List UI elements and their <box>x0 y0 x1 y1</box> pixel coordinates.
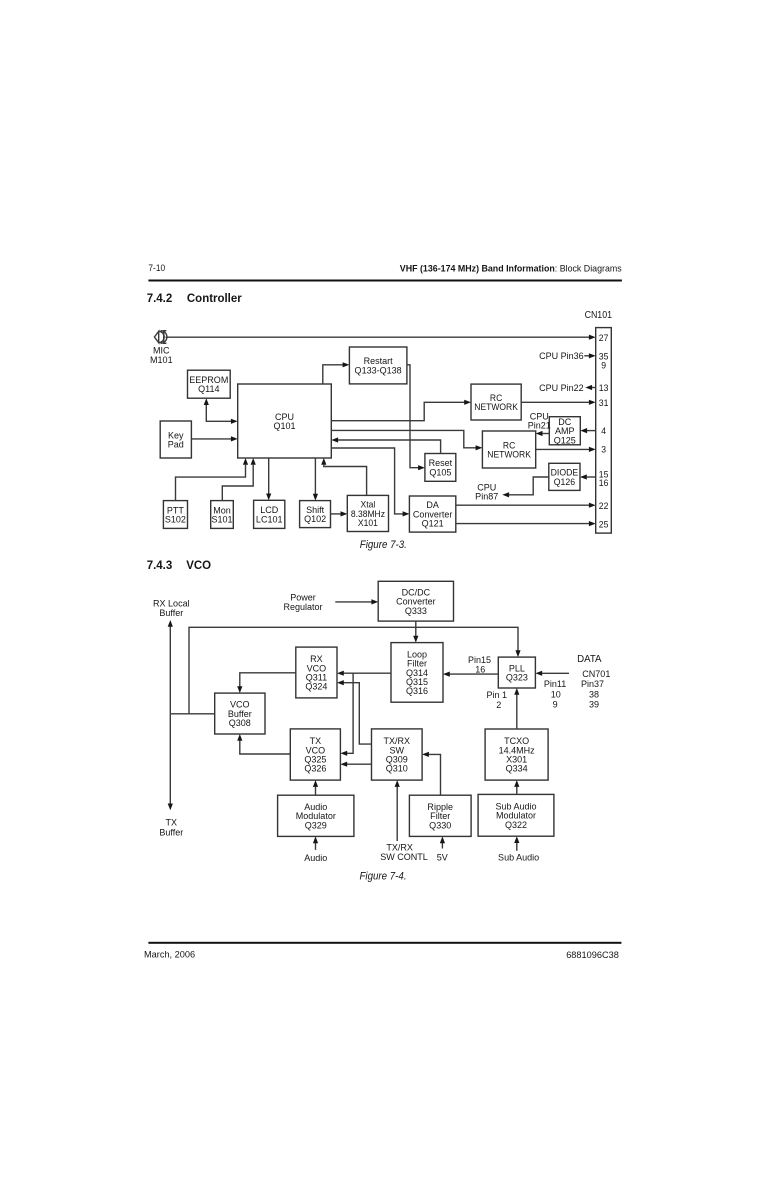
footer left: March, 2006 <box>144 949 195 959</box>
wire sw-txvco <box>340 762 371 767</box>
wire eeprom-cpu <box>204 398 238 424</box>
svg-text:CPU Pin22: CPU Pin22 <box>539 383 584 393</box>
wire rcnet1-pin31 <box>521 400 596 405</box>
svg-text:NETWORK: NETWORK <box>474 402 518 413</box>
svg-text:Q126: Q126 <box>554 477 575 487</box>
page header: right running title <box>400 263 622 273</box>
wire ripple-sw <box>422 752 440 795</box>
pin 27 of CN101 <box>599 332 609 343</box>
svg-text:Q323: Q323 <box>506 672 528 682</box>
svg-text:Controller: Controller <box>187 293 242 305</box>
svg-text:Figure 7-3.: Figure 7-3. <box>360 540 407 551</box>
wire reset-cpu <box>331 437 440 453</box>
wire rcnet2-pin3 <box>536 447 596 452</box>
block Loop Filter Q314 Q315 Q316 <box>391 643 443 703</box>
svg-text:M101: M101 <box>150 355 173 365</box>
svg-text:Buffer: Buffer <box>159 608 183 618</box>
svg-text:March, 2006: March, 2006 <box>144 949 195 959</box>
wire sw-rxvco <box>337 680 372 744</box>
wire tcxo-pll <box>514 688 519 729</box>
footer right: 6881096C38 <box>566 950 619 960</box>
svg-text:VCO: VCO <box>186 560 211 572</box>
svg-text:Figure 7-4.: Figure 7-4. <box>359 871 406 882</box>
svg-text:NETWORK: NETWORK <box>487 449 531 460</box>
label Pin 1 / 2 <box>487 690 508 710</box>
svg-text:Pin87: Pin87 <box>475 491 498 501</box>
block VCO Buffer Q308 <box>215 693 265 734</box>
pin 25 of CN101 <box>599 519 609 530</box>
block Key Pad <box>160 421 191 458</box>
svg-text:Q102: Q102 <box>304 514 326 524</box>
wire contl-sw <box>395 780 400 841</box>
wire net-rxlocal <box>168 620 173 714</box>
wire pin4-dcamp <box>580 428 595 433</box>
svg-text:CN701: CN701 <box>582 669 610 679</box>
wire da-pin22 <box>456 503 596 508</box>
wire pin13-cpupin22 <box>585 385 595 390</box>
label 5V <box>437 852 449 862</box>
svg-text:31: 31 <box>599 398 609 409</box>
block RC NETWORK upper <box>471 384 521 420</box>
svg-text:5V: 5V <box>437 852 449 862</box>
svg-text:Regulator: Regulator <box>283 602 322 612</box>
svg-text:9: 9 <box>601 360 606 371</box>
svg-text:Q322: Q322 <box>505 820 527 830</box>
wire cpu-restart <box>323 362 350 384</box>
svg-text:10: 10 <box>551 689 561 699</box>
label MIC M101 <box>150 345 173 365</box>
block RX VCO Q311 Q324 <box>296 647 337 698</box>
svg-text:16: 16 <box>599 477 609 488</box>
wire subaudiomod-tcxo <box>514 780 519 794</box>
pin 13 of CN101 <box>599 383 609 394</box>
svg-text:X101: X101 <box>358 518 378 529</box>
label DATA <box>577 654 602 665</box>
svg-text:38: 38 <box>589 689 599 699</box>
label TX Buffer <box>159 817 183 837</box>
block TX VCO Q325 Q326 <box>290 729 340 780</box>
svg-text:Q334: Q334 <box>506 763 528 773</box>
svg-text:Pad: Pad <box>168 439 184 449</box>
wire subaudio-in <box>514 836 519 851</box>
block RC NETWORK lower <box>482 431 535 468</box>
svg-text:22: 22 <box>599 500 609 511</box>
svg-text:Q308: Q308 <box>229 718 251 728</box>
wire net-txbuf <box>168 714 173 811</box>
block Xtal 8.38MHz X101 <box>347 495 388 531</box>
caption Figure 7-4 <box>359 871 406 882</box>
wire cpu-shift <box>313 458 318 501</box>
block Ripple Filter Q330 <box>409 795 471 836</box>
block DIODE Q126 <box>549 463 580 490</box>
pin 31 of CN101 <box>599 398 609 409</box>
svg-text:TX/RX: TX/RX <box>386 842 413 852</box>
wire xtal-cpu <box>321 458 366 495</box>
wire powerreg-dcdc <box>335 599 378 604</box>
wire txvco-vcobuf <box>237 734 290 754</box>
svg-text:27: 27 <box>599 332 609 343</box>
wire pll-loop <box>443 672 498 677</box>
block DC AMP Q125 <box>549 417 580 446</box>
wire mic-to-pin27 <box>166 335 596 340</box>
svg-text:Q326: Q326 <box>304 763 326 773</box>
svg-text:Pin21: Pin21 <box>528 420 551 430</box>
pin 15 of CN101 <box>599 469 609 480</box>
svg-text:Pin11: Pin11 <box>544 679 566 689</box>
svg-text:25: 25 <box>599 519 609 530</box>
svg-text:9: 9 <box>553 699 558 709</box>
wire net-vcobuf <box>170 713 214 715</box>
svg-text:CPU Pin36: CPU Pin36 <box>539 351 584 361</box>
svg-text:Q324: Q324 <box>305 681 327 691</box>
svg-text:Buffer: Buffer <box>159 827 183 837</box>
svg-text:Sub Audio: Sub Audio <box>498 852 539 862</box>
label Pin15 16 <box>468 655 491 675</box>
svg-text:Q114: Q114 <box>198 384 219 394</box>
wire cpu-rcnet2 <box>331 430 482 450</box>
svg-text:3: 3 <box>601 444 606 455</box>
footer rule <box>148 942 621 944</box>
wire data-pll <box>535 671 569 676</box>
svg-text:Pin 1: Pin 1 <box>487 690 508 700</box>
svg-text:S102: S102 <box>165 514 186 524</box>
label CN701 Pin37 38 39 <box>581 669 610 710</box>
svg-text:CN101: CN101 <box>585 309 612 320</box>
block Sub Audio Modulator Q322 <box>478 794 554 836</box>
svg-text:13: 13 <box>599 383 609 394</box>
svg-text:39: 39 <box>589 699 599 709</box>
svg-text:Pin37: Pin37 <box>581 679 604 689</box>
svg-text:Q105: Q105 <box>429 467 451 477</box>
svg-text:2: 2 <box>496 700 501 710</box>
block Shift Q102 <box>300 501 331 528</box>
wire cpu-da <box>331 448 409 517</box>
wire audiomod-txvco <box>313 780 318 795</box>
svg-text:S101: S101 <box>211 514 232 524</box>
label CPU Pin22 with arrow from pin 13 <box>539 383 584 393</box>
wire rxvco-vcobuf <box>237 673 296 693</box>
svg-text:Q329: Q329 <box>305 820 327 830</box>
section heading 7.4.3 VCO <box>147 560 211 572</box>
wire 5v-in <box>440 836 445 848</box>
wire loop-rxvco <box>337 671 391 676</box>
connector CN101 <box>596 328 612 533</box>
svg-text:Q333: Q333 <box>405 606 427 616</box>
block DC/DC Converter Q333 <box>378 581 453 621</box>
block Reset Q105 <box>425 454 456 482</box>
svg-text:4: 4 <box>601 426 606 437</box>
label Audio <box>304 853 327 863</box>
block DA Converter Q121 <box>409 496 455 532</box>
block TX/RX SW Q309 Q310 <box>372 729 423 780</box>
header rule <box>148 280 622 282</box>
svg-text:SW CONTL: SW CONTL <box>380 852 428 862</box>
label TX/RX SW CONTL <box>380 842 428 862</box>
pin 16 of CN101 <box>599 477 609 488</box>
block PTT S102 <box>163 501 187 529</box>
svg-text:Q310: Q310 <box>386 763 408 773</box>
svg-text:Q330: Q330 <box>429 820 451 830</box>
block LCD LC101 <box>254 500 285 528</box>
microphone symbol MIC M101 <box>154 331 166 344</box>
wire shift-xtal <box>331 511 348 516</box>
pin 4 of CN101 <box>601 426 606 437</box>
wire dcamp-rcnet2 <box>536 431 550 436</box>
block TCXO 14.4MHz X301 Q334 <box>485 729 548 780</box>
section heading 7.4.2 Controller <box>147 293 243 305</box>
page header: left page number <box>148 263 165 273</box>
pin 35 of CN101 <box>599 351 609 362</box>
svg-text:7-10: 7-10 <box>148 263 165 273</box>
svg-text:DATA: DATA <box>577 654 602 665</box>
svg-text:6881096C38: 6881096C38 <box>566 950 619 960</box>
svg-text:VHF (136-174 MHz) Band Informa: VHF (136-174 MHz) Band Information: Bloc… <box>400 263 622 273</box>
pin 3 of CN101 <box>601 444 606 455</box>
caption Figure 7-3 <box>360 540 407 551</box>
wire mon-cpu <box>222 458 256 501</box>
block CPU Q101 <box>238 384 332 458</box>
wire cpu-lcd <box>266 458 271 500</box>
label Power Regulator <box>283 592 322 612</box>
wire loop-txvco <box>340 673 353 756</box>
svg-text:7.4.3: 7.4.3 <box>147 560 173 572</box>
svg-text:Q125: Q125 <box>554 435 576 445</box>
wire ptt-cpu <box>176 458 249 501</box>
svg-text:16: 16 <box>475 664 485 674</box>
pin 22 of CN101 <box>599 500 609 511</box>
label CPU Pin36 with arrow to pin 35 <box>539 351 584 361</box>
label Sub Audio <box>498 852 539 862</box>
wire cpu-rcnet1 <box>331 400 471 421</box>
label RX Local Buffer <box>153 598 190 618</box>
block EEPROM Q114 <box>188 370 231 398</box>
svg-text:Q121: Q121 <box>422 518 444 528</box>
label Pin11 10 9 <box>544 679 566 710</box>
wire cpupin36-pin35 <box>584 353 595 358</box>
label CPU Pin87 <box>475 482 498 501</box>
svg-text:Q133-Q138: Q133-Q138 <box>355 365 402 375</box>
wire diode-pin87 <box>502 477 549 497</box>
wire power-rail <box>189 627 521 714</box>
wire keypad-cpu <box>191 436 237 441</box>
label CN101 <box>585 309 612 320</box>
svg-text:LC101: LC101 <box>256 514 283 524</box>
wire restart-reset <box>407 365 425 471</box>
svg-text:7.4.2: 7.4.2 <box>147 293 173 305</box>
pin 9 of CN101 <box>601 360 606 371</box>
wire dcdc-loop <box>413 621 418 643</box>
wire audio-in <box>313 836 318 850</box>
label CPU Pin21 <box>528 411 551 430</box>
block Restart Q133-Q138 <box>349 347 407 384</box>
wire pin1516-diode <box>580 474 596 479</box>
block PLL Q323 <box>498 657 535 688</box>
svg-text:Q101: Q101 <box>273 421 295 431</box>
svg-text:Q316: Q316 <box>406 686 428 696</box>
wire da-pin25 <box>456 521 596 526</box>
block Mon S101 <box>211 501 234 529</box>
block Audio Modulator Q329 <box>278 795 354 836</box>
svg-text:Audio: Audio <box>304 853 327 863</box>
